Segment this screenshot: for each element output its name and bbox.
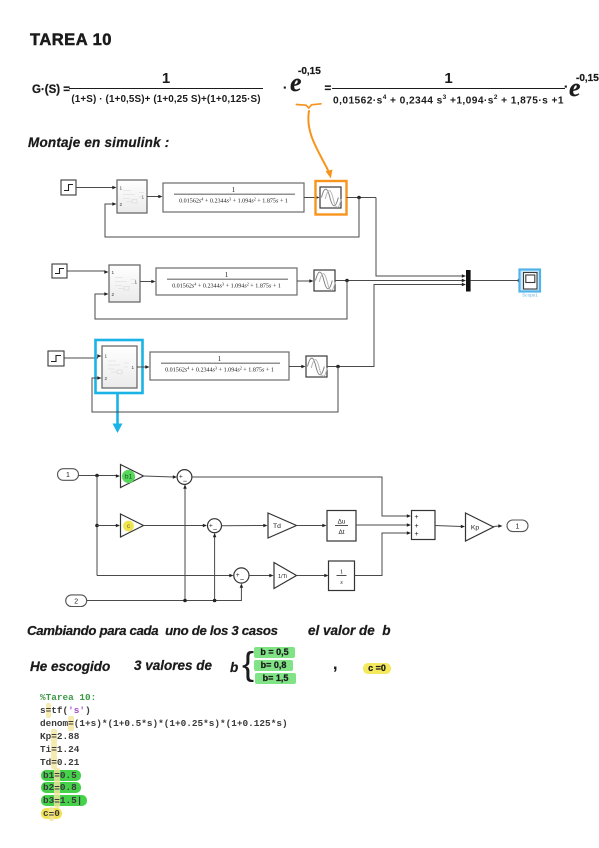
wire: subsystem1 to tf1 — [147, 195, 163, 199]
wire: mux to scope1 — [471, 279, 522, 283]
wire: branch across to sum3 — [97, 574, 234, 578]
wire: diagram1 feedback to subsystem1 in2 — [105, 198, 359, 238]
orange underbrace beneath first e^-0.15 — [297, 104, 322, 108]
svg-text:−: − — [213, 525, 217, 534]
handwritten title TAREA 10 — [30, 31, 112, 50]
svg-text:2: 2 — [112, 292, 115, 297]
sum block Sum2 — [208, 519, 222, 534]
gain block 1/Ti — [274, 563, 297, 589]
svg-text:1: 1 — [105, 354, 108, 359]
wire: c gain to sum2 — [144, 524, 208, 528]
highlighted value b = 0,5 — [254, 647, 295, 658]
svg-text:2: 2 — [105, 376, 108, 381]
step source block Step — [61, 180, 76, 195]
wire: in2 bottom line with branches up to sums — [87, 584, 243, 603]
cyan arrow pointing down to detail view — [113, 394, 123, 433]
sum block Sum3 — [234, 568, 249, 584]
svg-text:Td: Td — [273, 523, 281, 530]
svg-text:2: 2 — [74, 598, 78, 605]
svg-text:1: 1 — [120, 186, 123, 191]
wire: step1 to subsystem1 in1 — [76, 186, 117, 190]
svg-text:1: 1 — [132, 365, 135, 370]
svg-text:1/Ti: 1/Ti — [278, 574, 287, 580]
wire: b1 to sum1 — [144, 475, 178, 479]
svg-text:+: + — [414, 523, 418, 530]
gain block c — [121, 514, 144, 537]
step source block Step1 — [48, 351, 64, 366]
cyan highlight box around subsystem3 — [96, 340, 143, 393]
wire: step3 to subsystem3 in1 — [64, 354, 102, 358]
add block (sum of 3) — [412, 511, 436, 540]
brace { — [242, 645, 254, 683]
wire: add block to Kp gain — [435, 525, 465, 529]
sum block Sum1 — [177, 470, 192, 486]
wire: bottom line up into sum1 — [183, 485, 187, 601]
svg-text:Δt: Δt — [338, 529, 344, 536]
handwritten line: Cambiando para cada uno de los 3 casos el valor de b — [27, 623, 278, 638]
wire: delay1 output to junction and right — [347, 196, 377, 200]
highlighted value b = 1,5 — [255, 673, 296, 684]
svg-text:Scope1: Scope1 — [522, 292, 538, 297]
wire: tf3 to delay3 — [289, 365, 306, 369]
svg-text:Kp: Kp — [471, 524, 480, 531]
gain block Kp — [466, 513, 494, 541]
transfer function block Transfer Fcn — [163, 183, 304, 212]
wire: sum1 output to add block input 1 — [192, 477, 411, 518]
svg-text:1: 1 — [232, 186, 236, 194]
wire: Td to derivative block — [297, 524, 327, 528]
wire: tf2 to delay2 — [297, 279, 314, 283]
svg-text:1: 1 — [225, 271, 229, 279]
port In2 — [66, 595, 87, 607]
wire: tf1 to delay1 — [304, 196, 320, 200]
wire: delay2 to mux input 2 with junction — [335, 279, 466, 283]
integrator block 1/s — [329, 561, 355, 591]
wire: branch to c gain — [97, 524, 120, 528]
svg-text:1: 1 — [516, 523, 520, 530]
wire: integrator to add block input 3 — [355, 531, 412, 575]
transfer function block Transfer Fcn3 — [150, 352, 289, 380]
svg-text:b1: b1 — [125, 473, 133, 480]
handwritten caption: Montaje en simulink — [28, 135, 169, 150]
svg-text:+: + — [414, 531, 418, 538]
transport delay block Transport Delay3 — [306, 356, 327, 377]
wire: sum2 to Td gain — [222, 524, 268, 528]
subsystem block Subsystem3 — [102, 346, 137, 388]
svg-text:1: 1 — [142, 195, 145, 200]
mux bar — [466, 270, 471, 292]
second e^-0.15 term — [564, 79, 568, 94]
wire: branch down from in1 — [95, 476, 99, 576]
svg-text:s: s — [340, 579, 343, 586]
svg-text:Δu: Δu — [338, 519, 346, 526]
wire: subsystem2 to tf2 — [140, 280, 156, 284]
wire: 1/Ti to integrator — [297, 574, 329, 578]
equation fraction 2 — [332, 72, 565, 106]
wire: Kp to out port — [494, 524, 503, 528]
highlighted value b = 0,8 — [254, 660, 293, 671]
wire: down to mux input 1 — [376, 198, 466, 278]
wire: step2 to subsystem2 in1 — [67, 270, 109, 274]
subsystem block Subsystem — [117, 180, 147, 213]
subsystem block Subsystem2 — [109, 265, 140, 302]
transport delay block Transport Delay — [320, 187, 341, 208]
transport delay block Transport Delay2 — [314, 270, 335, 291]
orange curved arrow from equation to delay1 — [308, 111, 332, 179]
step source block Step2 — [52, 264, 67, 278]
svg-text:−: − — [183, 476, 187, 485]
svg-text:1: 1 — [135, 280, 138, 285]
wire: diagram2 feedback to subsystem2 in2 — [95, 281, 347, 320]
wire: in1 to b1 gain with branch — [79, 474, 121, 478]
handwritten line: He escogido 3 valores de b — [30, 659, 110, 674]
port Out1 — [507, 520, 528, 532]
svg-text:1: 1 — [340, 569, 343, 576]
wire: delay3 output junction, up to mux input 3 — [327, 283, 466, 369]
equals sign — [325, 83, 332, 95]
svg-text:2: 2 — [120, 202, 123, 207]
comma separator — [333, 656, 337, 674]
wire: bottom line up into sum2 — [213, 533, 217, 601]
scope1 block with blue highlight — [520, 270, 541, 298]
gain block b1 — [121, 465, 144, 488]
highlighted c=0 — [363, 663, 391, 674]
first e^-0.15 term — [283, 80, 287, 95]
handwritten equation: G(S)= — [32, 84, 70, 96]
wire: subsystem3 to tf3 — [137, 365, 150, 369]
wire: diagram3 feedback to subsystem3 in2 — [92, 367, 338, 413]
orange highlight box around delay1 — [316, 181, 347, 215]
svg-text:1: 1 — [218, 355, 222, 363]
svg-text:−: − — [240, 575, 244, 584]
svg-text:1: 1 — [112, 270, 115, 275]
derivative block du/dt — [327, 511, 356, 542]
wire: derivative to add block input 2 — [356, 523, 411, 527]
gain block Td — [268, 513, 297, 538]
MATLAB code block — [40, 692, 288, 822]
equation fraction 1 — [69, 72, 263, 104]
svg-text:1: 1 — [66, 472, 70, 479]
transfer function block Transfer Fcn2 — [156, 268, 297, 295]
wire: sum3 to 1/Ti gain — [249, 574, 274, 578]
svg-text:+: + — [414, 514, 418, 521]
port In1 — [58, 469, 79, 481]
